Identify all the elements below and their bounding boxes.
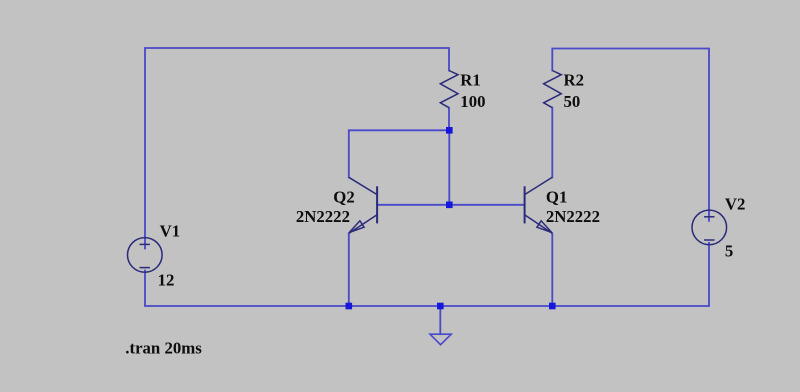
svg-text:V1: V1 — [160, 222, 181, 241]
svg-text:V2: V2 — [725, 195, 746, 214]
svg-text:R1: R1 — [460, 71, 481, 90]
svg-text:50: 50 — [564, 92, 581, 111]
svg-text:2N2222: 2N2222 — [296, 207, 350, 226]
svg-text:R2: R2 — [564, 71, 585, 90]
svg-text:100: 100 — [460, 92, 485, 111]
svg-text:12: 12 — [158, 271, 175, 290]
svg-text:Q1: Q1 — [546, 187, 567, 206]
svg-text:.tran 20ms: .tran 20ms — [125, 339, 202, 358]
svg-text:5: 5 — [725, 242, 733, 261]
svg-text:2N2222: 2N2222 — [546, 207, 600, 226]
svg-text:Q2: Q2 — [333, 187, 354, 206]
